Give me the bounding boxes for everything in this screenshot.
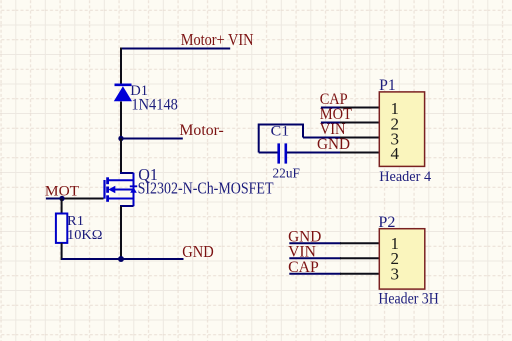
net label GND <box>288 228 321 245</box>
wire VIN row P2 <box>289 257 341 259</box>
value Header 3H <box>378 291 438 308</box>
wire VIN jog top <box>259 125 303 153</box>
wire Motor- <box>121 138 183 140</box>
resistor R1 <box>56 214 67 243</box>
svg-text:Motor-: Motor- <box>179 122 223 139</box>
wire diode to junction <box>120 102 122 140</box>
pin number 4 <box>391 144 400 163</box>
net label CAP <box>320 91 348 108</box>
svg-text:Motor+ VIN: Motor+ VIN <box>181 30 254 49</box>
net label Motor+ VIN <box>181 30 254 49</box>
designator P1 <box>379 77 396 94</box>
designator D1 <box>130 83 148 99</box>
designator R1 <box>67 213 84 228</box>
wire junction to drain <box>120 139 122 175</box>
wire C1 left <box>259 152 278 154</box>
wire source link <box>120 205 134 207</box>
pin P1.3 <box>340 137 379 139</box>
wire CAP row P1 <box>321 107 341 109</box>
pin number 1 <box>391 234 400 253</box>
node MOT junction <box>59 196 64 201</box>
net label Motor- <box>179 122 223 139</box>
value 1N4148 <box>131 96 178 113</box>
svg-text:P2: P2 <box>378 214 395 231</box>
connector P2 <box>379 229 425 289</box>
value 10KΩ <box>67 227 103 242</box>
svg-text:C1: C1 <box>271 123 290 139</box>
svg-text:1N4148: 1N4148 <box>131 96 178 113</box>
svg-text:Header 4: Header 4 <box>379 169 431 185</box>
svg-text:CAP: CAP <box>288 259 319 276</box>
net label MOT <box>45 183 79 199</box>
pin P1.4 <box>340 152 379 154</box>
pin number 2 <box>391 249 400 268</box>
node Motor- junction <box>118 136 123 141</box>
svg-text:P1: P1 <box>379 77 396 94</box>
capacitor C1 <box>279 143 286 163</box>
transistor Q1 <box>105 173 138 206</box>
wire GND bottom <box>62 258 184 260</box>
svg-text:22uF: 22uF <box>273 165 301 180</box>
svg-text:SI2302-N-Ch-MOSFET: SI2302-N-Ch-MOSFET <box>138 179 274 198</box>
net label GND <box>182 242 213 261</box>
wire MOT <box>46 198 65 200</box>
net label GND <box>317 136 350 153</box>
svg-text:3: 3 <box>391 264 400 283</box>
designator Q1 <box>138 165 158 184</box>
pin P2.3 <box>340 273 379 275</box>
pin P2.2 <box>340 257 379 259</box>
wire GND row P2 <box>289 242 341 244</box>
pin P1.1 <box>340 107 379 109</box>
svg-text:10KΩ: 10KΩ <box>67 227 103 242</box>
pin R1 bottom <box>61 243 63 260</box>
svg-text:4: 4 <box>391 144 400 163</box>
net label MOT <box>320 106 353 123</box>
wire MOT row P1 <box>321 122 341 124</box>
net label CAP <box>288 259 319 276</box>
pin number 1 <box>391 99 400 118</box>
svg-text:GND: GND <box>182 242 213 261</box>
node GND junction <box>118 256 124 262</box>
pin number 2 <box>391 114 400 133</box>
svg-text:GND: GND <box>317 136 350 153</box>
pin P1.2 <box>340 122 379 124</box>
pin number 3 <box>391 264 400 283</box>
wire GND row to P1 <box>287 152 341 154</box>
diode D1 <box>114 85 132 102</box>
pin P2.1 <box>340 242 379 244</box>
designator C1 <box>271 123 290 139</box>
wire drain link <box>120 172 134 174</box>
wire source vertical <box>120 206 122 259</box>
pin Q1 gate <box>64 198 104 200</box>
net label VIN <box>288 244 316 261</box>
svg-text:VIN: VIN <box>288 244 316 261</box>
designator P2 <box>378 214 395 231</box>
value 22uF <box>273 165 301 180</box>
wire drain vertical upper <box>120 48 122 85</box>
value SI2302-N-Ch-MOSFET <box>138 179 274 198</box>
wire Motor+ VIN horizontal <box>120 48 230 50</box>
svg-text:Header 3H: Header 3H <box>378 291 438 308</box>
wire VIN row to P1 <box>303 137 341 139</box>
wire CAP row P2 <box>289 273 341 275</box>
pin number 3 <box>391 129 400 148</box>
pin R1 top <box>61 199 63 215</box>
value Header 4 <box>379 169 431 185</box>
connector P1 <box>379 92 424 166</box>
net label VIN <box>320 121 346 138</box>
